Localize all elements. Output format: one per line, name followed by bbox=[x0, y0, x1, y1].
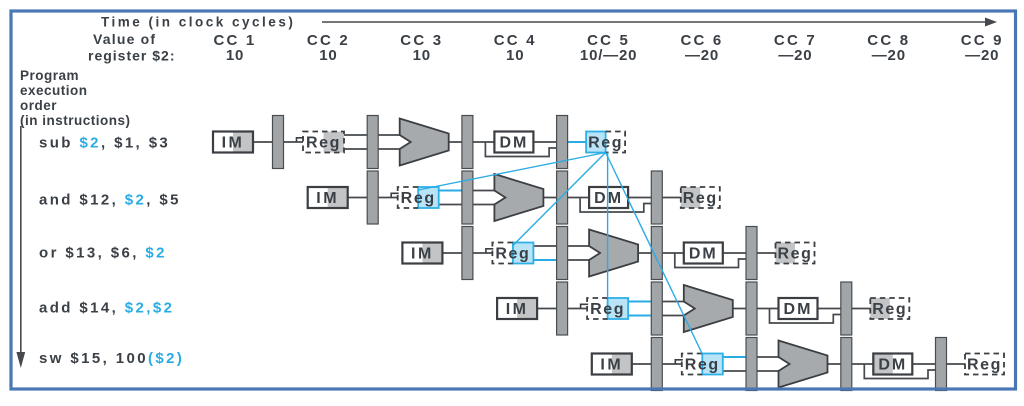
dependence line sub Reg to and Reg bbox=[418, 153, 605, 191]
pipeline register bar 1, row 4 bbox=[557, 282, 568, 335]
pipeline register bar 3, row 2 bbox=[557, 171, 568, 224]
wire pipe register to write-back Reg, row 4 bbox=[850, 308, 870, 310]
pipeline register bar 3, row 3 bbox=[651, 227, 662, 280]
svg-text:Reg: Reg bbox=[685, 357, 720, 374]
svg-text:—20: —20 bbox=[685, 47, 719, 64]
svg-text:DM: DM bbox=[594, 190, 623, 207]
svg-text:sw $15, 100($2): sw $15, 100($2) bbox=[39, 350, 184, 367]
svg-text:DM: DM bbox=[689, 246, 718, 263]
wire Reg to ALU upper operand, row 3 bbox=[533, 245, 590, 247]
label: Program execution order bbox=[20, 68, 131, 128]
svg-text:—20: —20 bbox=[872, 47, 906, 64]
pipeline register bar 2, row 5 bbox=[746, 338, 757, 391]
wire IM to pipe register, row 3 bbox=[442, 252, 463, 254]
wire Reg to ALU upper operand, row 2 bbox=[439, 190, 496, 192]
ALU, row 3 bbox=[589, 230, 638, 277]
Reg read box, row 5 bbox=[682, 354, 723, 375]
wire Reg to ALU lower operand, row 5 bbox=[723, 370, 780, 372]
write-port hook on Reg, row 2 bbox=[391, 193, 399, 197]
wire Reg to ALU lower operand, row 4 bbox=[628, 315, 685, 317]
Reg write-back box, row 1 bbox=[586, 132, 625, 153]
wire pipe register to write-back Reg, row 3 bbox=[756, 252, 776, 254]
DM box, row 1 bbox=[494, 132, 533, 153]
wire DM to pipe register, row 2 bbox=[628, 197, 653, 199]
svg-text:Reg: Reg bbox=[306, 135, 341, 152]
DM box, row 2 bbox=[589, 187, 628, 208]
svg-text:Reg: Reg bbox=[495, 246, 530, 263]
wire DM to pipe register, row 5 bbox=[912, 363, 937, 365]
svg-text:(in instructions): (in instructions) bbox=[20, 113, 131, 128]
pipeline register bar 1, row 5 bbox=[651, 338, 662, 391]
svg-text:Reg: Reg bbox=[872, 301, 907, 318]
write-port hook on Reg, row 5 bbox=[675, 360, 683, 364]
Reg read box, row 1 bbox=[303, 132, 344, 153]
IM box, row 1 bbox=[213, 132, 253, 153]
DM box, row 4 bbox=[779, 298, 818, 319]
Reg write-back box, row 5 bbox=[965, 354, 1004, 375]
Reg read box, row 3 bbox=[492, 243, 533, 264]
svg-text:Reg: Reg bbox=[590, 301, 625, 318]
pipeline register bar 3, row 1 bbox=[462, 116, 473, 169]
wire pipe register to Reg read, row 5 bbox=[661, 363, 682, 365]
cyan forwarded operand wire (upper), row 5 bbox=[723, 356, 747, 358]
bypass wire under DM, row 4 bbox=[770, 309, 843, 324]
wire DM to pipe register, row 3 bbox=[723, 252, 748, 254]
pipeline register bar 4, row 3 bbox=[746, 227, 757, 280]
wire Reg to ALU lower operand, row 2 bbox=[439, 204, 496, 206]
wire Reg to ALU upper operand, row 1 bbox=[344, 134, 401, 136]
wire DM to pipe register, row 1 bbox=[533, 141, 558, 143]
wire IM to pipe register, row 4 bbox=[537, 308, 558, 310]
time axis arrow bbox=[322, 18, 997, 27]
ALU, row 4 bbox=[684, 285, 733, 332]
pipeline register bar 4, row 1 bbox=[557, 116, 568, 169]
svg-text:DM: DM bbox=[784, 301, 813, 318]
svg-text:—20: —20 bbox=[965, 47, 999, 64]
wire ALU to DM, row 1 bbox=[449, 141, 495, 143]
pipeline register bar 2, row 2 bbox=[462, 171, 473, 224]
svg-text:10: 10 bbox=[413, 47, 431, 64]
svg-text:order: order bbox=[20, 98, 57, 113]
bypass wire under DM, row 3 bbox=[675, 253, 748, 268]
program order arrow (downward) bbox=[16, 126, 25, 368]
IM box, row 4 bbox=[497, 298, 537, 319]
svg-text:Reg: Reg bbox=[401, 190, 436, 207]
svg-text:Time (in clock cycles): Time (in clock cycles) bbox=[101, 15, 295, 30]
svg-text:sub $2, $1, $3: sub $2, $1, $3 bbox=[39, 135, 170, 152]
Reg write-back box, row 3 bbox=[776, 243, 815, 264]
svg-text:10: 10 bbox=[319, 47, 337, 64]
ALU, row 5 bbox=[779, 341, 828, 388]
Reg write-back box, row 4 bbox=[870, 298, 909, 319]
pipeline register bar 2, row 4 bbox=[651, 282, 662, 335]
cyan forwarded operand wire (upper), row 4 bbox=[628, 301, 652, 303]
wire Reg to ALU lower operand, row 1 bbox=[344, 148, 401, 150]
Reg read box, row 2 bbox=[398, 187, 439, 208]
svg-text:10: 10 bbox=[226, 47, 244, 64]
pipeline register bar 3, row 4 bbox=[746, 282, 757, 335]
pipeline register bar 1, row 3 bbox=[462, 227, 473, 280]
pipeline register bar 3, row 5 bbox=[841, 338, 852, 391]
svg-text:DM: DM bbox=[499, 135, 528, 152]
svg-text:10: 10 bbox=[506, 47, 524, 64]
svg-text:add $14, $2,$2: add $14, $2,$2 bbox=[39, 300, 174, 317]
svg-text:IM: IM bbox=[316, 190, 339, 207]
svg-text:10/—20: 10/—20 bbox=[580, 47, 637, 64]
wire ALU to DM, row 2 bbox=[543, 197, 589, 199]
dependence line sub Reg to or Reg bbox=[513, 153, 606, 246]
pipeline register bar 2, row 1 bbox=[367, 116, 378, 169]
svg-text:DM: DM bbox=[878, 357, 907, 374]
cyan forwarded operand wire (upper), row 2 bbox=[439, 190, 463, 192]
label: Value of register $2 bbox=[88, 31, 175, 64]
wire Reg to ALU lower operand, row 3 bbox=[533, 259, 590, 261]
pipeline register bar 4, row 4 bbox=[841, 282, 852, 335]
write-port hook on Reg, row 4 bbox=[581, 304, 589, 308]
ALU, row 1 bbox=[400, 119, 449, 166]
svg-text:IM: IM bbox=[506, 301, 529, 318]
DM box, row 5 bbox=[873, 354, 912, 375]
wire pipe register to Reg read, row 1 bbox=[282, 141, 303, 143]
wire pipe register to write-back Reg, row 5 bbox=[945, 363, 965, 365]
svg-text:—20: —20 bbox=[778, 47, 812, 64]
svg-text:and $12, $2, $5: and $12, $2, $5 bbox=[39, 192, 181, 209]
svg-text:execution: execution bbox=[20, 83, 88, 98]
cyan wire to write-back Reg, row 1 bbox=[566, 141, 586, 143]
write-port hook on Reg, row 3 bbox=[486, 249, 494, 253]
wire IM to pipe register, row 5 bbox=[632, 363, 653, 365]
write-port hook on Reg, row 1 bbox=[297, 138, 305, 142]
IM box, row 3 bbox=[402, 243, 442, 264]
svg-text:register $2:: register $2: bbox=[88, 48, 175, 64]
ALU, row 2 bbox=[494, 174, 543, 221]
svg-text:Reg: Reg bbox=[967, 357, 1002, 374]
dependence line sub Reg to add Reg bbox=[607, 153, 609, 299]
svg-text:IM: IM bbox=[600, 357, 623, 374]
svg-text:or $13, $6, $2: or $13, $6, $2 bbox=[39, 245, 167, 262]
bypass wire under DM, row 5 bbox=[864, 364, 937, 379]
svg-text:IM: IM bbox=[222, 135, 245, 152]
svg-text:Program: Program bbox=[20, 68, 79, 83]
wire Reg to ALU upper operand, row 5 bbox=[723, 356, 780, 358]
wire Reg to ALU upper operand, row 4 bbox=[628, 301, 685, 303]
pipeline register bar 1, row 2 bbox=[367, 171, 378, 224]
wire IM to pipe register, row 2 bbox=[348, 197, 369, 199]
wire ALU to DM, row 5 bbox=[828, 363, 874, 365]
wire DM to pipe register, row 4 bbox=[818, 308, 843, 310]
dependence line sub Reg to sw Reg bbox=[606, 153, 703, 355]
pipeline register bar 2, row 3 bbox=[557, 227, 568, 280]
wire IM to pipe register, row 1 bbox=[253, 141, 274, 143]
wire ALU to DM, row 4 bbox=[733, 308, 779, 310]
pipeline register bar 4, row 2 bbox=[651, 171, 662, 224]
bypass wire under DM, row 2 bbox=[580, 198, 653, 213]
IM box, row 5 bbox=[592, 354, 632, 375]
Reg write-back box, row 2 bbox=[681, 187, 720, 208]
pipeline register bar 1, row 1 bbox=[273, 116, 284, 169]
DM box, row 3 bbox=[684, 243, 723, 264]
wire pipe register to Reg read, row 3 bbox=[471, 252, 492, 254]
svg-text:Reg: Reg bbox=[683, 190, 718, 207]
cyan forwarded operand wire (lower), row 4 bbox=[628, 315, 652, 317]
wire pipe register to Reg read, row 4 bbox=[566, 308, 587, 310]
wire pipe register to write-back Reg, row 2 bbox=[661, 197, 681, 199]
Reg read box, row 4 bbox=[587, 298, 628, 319]
wire ALU to DM, row 3 bbox=[638, 252, 684, 254]
pipeline register bar 4, row 5 bbox=[936, 338, 947, 391]
wire pipe register to Reg read, row 2 bbox=[377, 197, 398, 199]
svg-text:Reg: Reg bbox=[777, 246, 812, 263]
svg-text:IM: IM bbox=[411, 246, 434, 263]
IM box, row 2 bbox=[308, 187, 348, 208]
svg-text:Value of: Value of bbox=[93, 31, 156, 47]
bypass wire under DM, row 1 bbox=[485, 142, 558, 157]
cyan forwarded operand wire (lower), row 3 bbox=[533, 259, 557, 261]
svg-text:Reg: Reg bbox=[588, 135, 623, 152]
